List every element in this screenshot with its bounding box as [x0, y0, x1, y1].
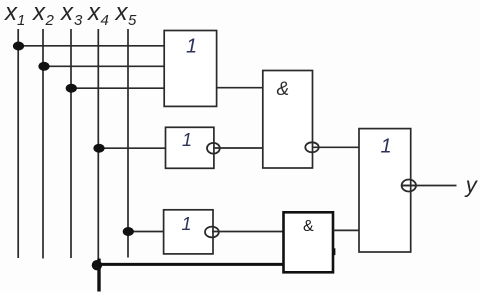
AND gate U5 right-edge pin mark — [332, 248, 335, 255]
wire AND gate U5 output to OR gate U6 input 2 — [333, 229, 359, 231]
svg-text:&: & — [303, 218, 314, 235]
wire x4 to NOT gate U2 input — [98, 147, 165, 149]
wire input line x3 vertical — [70, 29, 72, 258]
AND gate U4 output bubble — [305, 142, 318, 152]
node junction dot on x2 — [38, 62, 49, 71]
wire NOT gate U3 output to AND gate U5 input 1 — [212, 231, 284, 233]
svg-text:x: x — [60, 0, 74, 26]
AND gate U5 box — [284, 212, 334, 272]
node junction dot on x1 — [13, 42, 24, 51]
wire OR gate U6 output to y — [402, 185, 457, 187]
wire input line x4 vertical — [97, 29, 99, 265]
wire input line x5 vertical — [127, 29, 129, 258]
svg-text:5: 5 — [128, 12, 137, 29]
wire x2 to OR gate U1 input 2 — [43, 65, 164, 67]
NOT gate U3 output bubble — [205, 227, 219, 238]
input label x2 — [32, 0, 55, 29]
svg-text:x: x — [87, 0, 101, 26]
wire x1 to OR gate U1 input 1 — [18, 45, 164, 47]
NOT gate U2 output bubble — [207, 143, 220, 154]
node junction dot on x4 — [93, 144, 104, 153]
svg-text:1: 1 — [17, 12, 25, 29]
node junction dot on x4 bottom — [92, 260, 102, 270]
wire NOT gate U2 output to AND gate U4 input 2 — [214, 147, 263, 149]
input label x3 — [60, 0, 83, 29]
wire x3 to OR gate U1 input 3 — [71, 87, 164, 89]
wire through bubble — [402, 185, 416, 187]
NOT gate U3 box — [164, 210, 213, 254]
wire x4 bottom thick to AND gate U5 input 2 — [97, 263, 285, 266]
OR gate U1 box — [164, 31, 216, 107]
AND gate U4 box — [263, 71, 313, 169]
svg-text:1: 1 — [182, 130, 192, 150]
svg-text:1: 1 — [186, 36, 197, 58]
svg-text:1: 1 — [381, 136, 392, 158]
input label x5 — [115, 0, 138, 29]
wire input line x2 vertical — [42, 29, 44, 259]
svg-text:x: x — [32, 0, 46, 26]
wire x4 thick below junction — [97, 259, 100, 292]
svg-text:3: 3 — [74, 12, 83, 29]
wire x5 to NOT gate U3 input — [128, 231, 164, 233]
svg-text:2: 2 — [45, 12, 55, 29]
OR gate U6 box — [359, 129, 411, 252]
node junction dot on x3 — [66, 84, 77, 93]
input label x1 — [4, 0, 25, 29]
svg-text:1: 1 — [182, 214, 192, 234]
NOT gate U2 box — [166, 127, 214, 168]
wire OR gate U1 output to AND gate U4 input 1 — [217, 87, 263, 89]
node junction dot on x5 — [123, 227, 134, 236]
svg-text:x: x — [115, 0, 129, 26]
wire input line x1 vertical — [17, 29, 19, 258]
svg-text:&: & — [277, 79, 290, 100]
input label x4 — [87, 0, 109, 29]
svg-text:4: 4 — [101, 12, 109, 29]
svg-text:y: y — [464, 173, 479, 198]
svg-text:x: x — [4, 0, 18, 26]
wire AND gate U4 output to OR gate U6 input 1 — [312, 146, 359, 148]
OR gate U6 output bubble — [402, 180, 416, 192]
